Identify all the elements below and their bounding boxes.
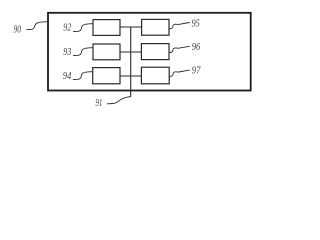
- svg-text:97: 97: [192, 66, 201, 77]
- svg-text:90: 90: [13, 25, 21, 36]
- svg-text:96: 96: [192, 42, 201, 53]
- svg-text:94: 94: [63, 71, 71, 82]
- svg-text:93: 93: [63, 47, 71, 58]
- svg-text:95: 95: [192, 19, 200, 30]
- svg-text:91: 91: [95, 98, 102, 109]
- svg-text:92: 92: [63, 23, 71, 34]
